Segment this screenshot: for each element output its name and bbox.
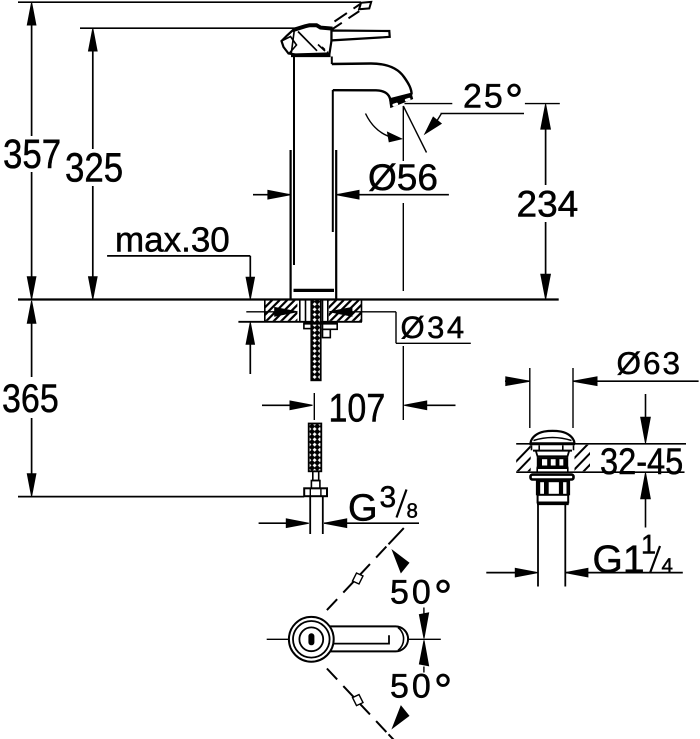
svg-text:Ø56: Ø56 — [368, 157, 438, 198]
svg-text:1: 1 — [641, 529, 656, 559]
svg-text:357: 357 — [3, 131, 61, 177]
svg-text:max.30: max.30 — [115, 220, 230, 259]
svg-text:325: 325 — [65, 145, 123, 191]
svg-text:234: 234 — [517, 184, 579, 225]
svg-text:4: 4 — [662, 554, 673, 577]
svg-text:3: 3 — [380, 481, 397, 514]
svg-text:Ø34: Ø34 — [401, 310, 467, 345]
svg-text:32-45: 32-45 — [600, 441, 683, 482]
svg-text:8: 8 — [407, 499, 418, 522]
svg-text:G1: G1 — [593, 538, 645, 581]
svg-text:G: G — [348, 487, 378, 529]
svg-text:Ø63: Ø63 — [617, 345, 683, 381]
svg-text:107: 107 — [329, 386, 386, 430]
svg-text:365: 365 — [2, 377, 59, 421]
